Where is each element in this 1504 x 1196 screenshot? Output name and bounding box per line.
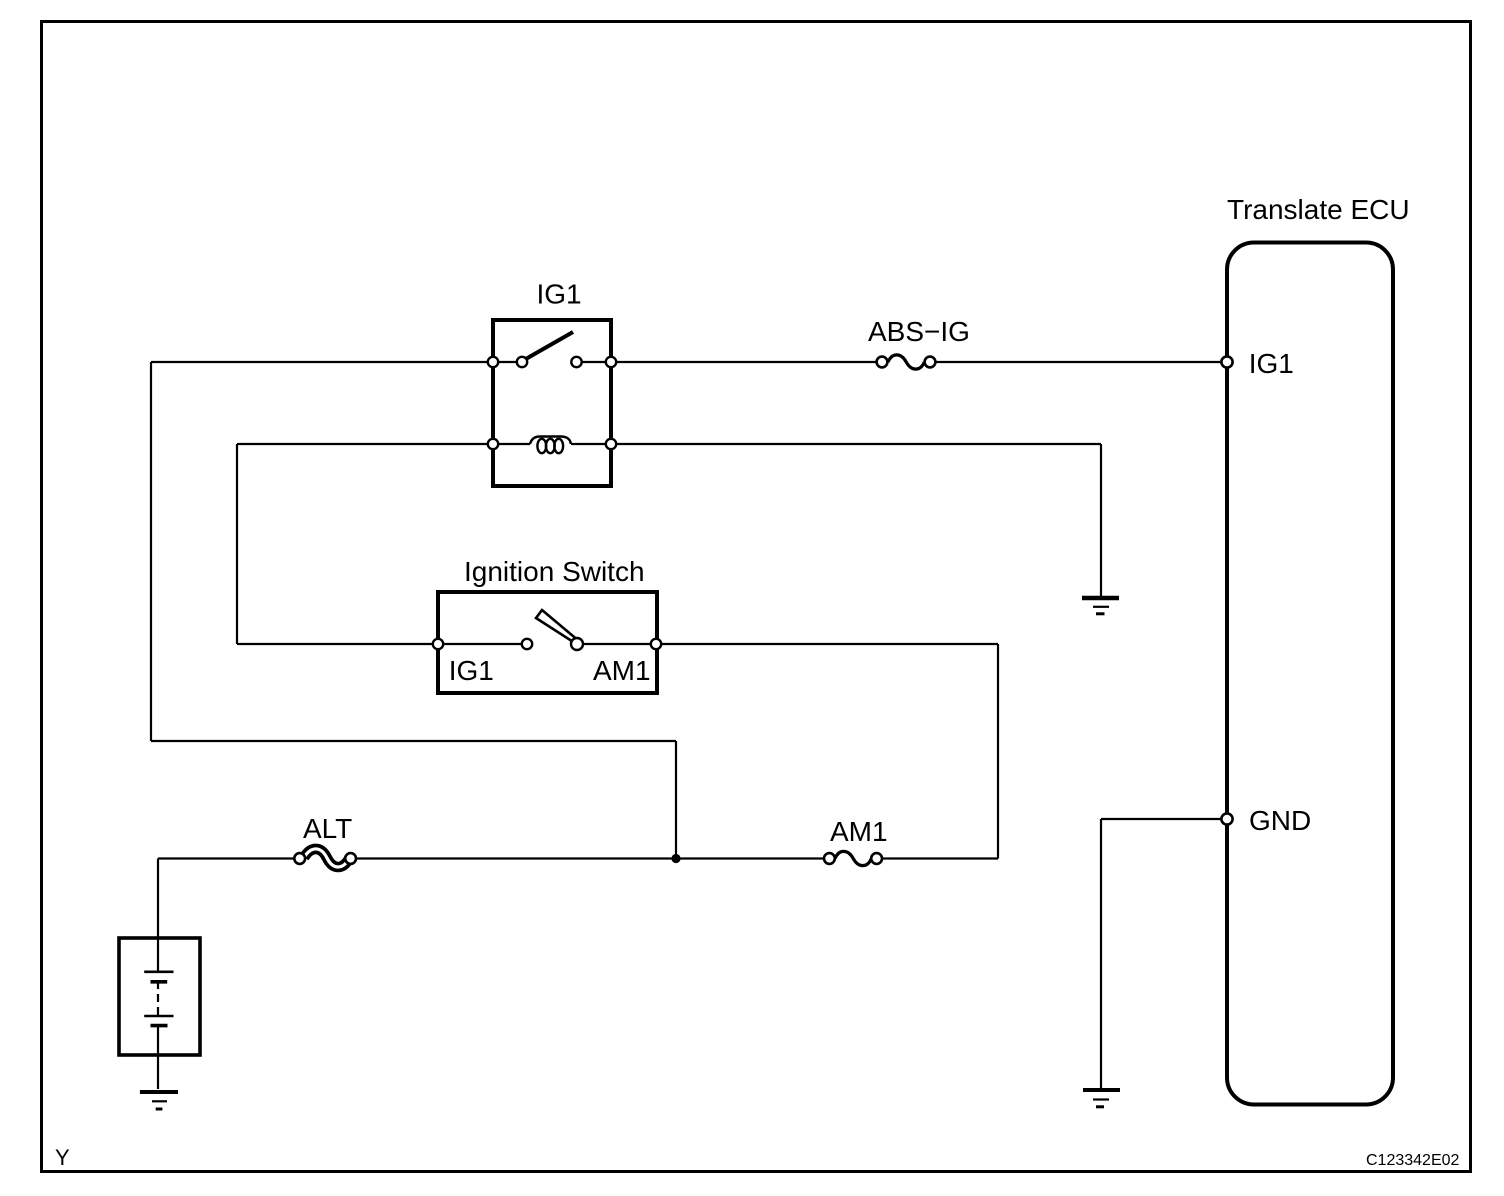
label IG1 terminal	[449, 655, 494, 686]
pin label GND	[1249, 805, 1311, 836]
pin GND terminal on ECU	[1221, 813, 1232, 824]
label IG1 relay	[537, 279, 582, 310]
relay IG1 box	[493, 320, 611, 486]
ignition switch lever	[536, 610, 578, 644]
wire lower horizontal run to junction	[151, 740, 676, 742]
svg-text:GND: GND	[1249, 805, 1311, 836]
wire right drop to bottom row	[997, 644, 999, 859]
wire bottom row battery to ALT	[158, 857, 300, 859]
label AM1 terminal	[593, 655, 651, 686]
ground below battery	[140, 1092, 178, 1109]
battery B1	[119, 938, 200, 1089]
wire relay switch output to ABS-IG fuse	[576, 361, 882, 363]
wire ALT to AM1 fuse	[350, 857, 830, 859]
junction node	[671, 854, 680, 863]
ignition switch S1 box	[438, 592, 657, 693]
pin IG1 terminal on ECU	[1221, 356, 1232, 367]
svg-text:ABS−IG: ABS−IG	[868, 316, 970, 347]
svg-text:Translate ECU: Translate ECU	[1227, 194, 1410, 225]
wire top row from left riser to relay	[151, 361, 522, 363]
wire relay coil row	[237, 443, 530, 445]
wire battery top lead	[157, 859, 159, 973]
label ALT	[303, 813, 352, 844]
wire ignition switch AM1 out	[577, 643, 998, 645]
label Y	[55, 1145, 70, 1170]
label ABS-IG	[868, 316, 970, 347]
wire coil loop left drop	[236, 444, 238, 644]
ECU U1 body	[1227, 243, 1393, 1105]
fuse AM1	[824, 851, 882, 865]
wire coil right to ground riser	[571, 443, 1101, 445]
ground mid (relay coil return)	[1082, 598, 1119, 614]
svg-text:Ignition Switch: Ignition Switch	[464, 556, 645, 587]
svg-text:C123342E02: C123342E02	[1366, 1152, 1460, 1169]
svg-text:Y: Y	[55, 1145, 70, 1170]
wire ground riser bottom	[1100, 819, 1102, 1089]
wire ABS-IG fuse to ECU pin IG1	[930, 361, 1227, 363]
relay pin terminals	[488, 357, 616, 449]
label AM1 fuse	[830, 816, 888, 847]
svg-text:ALT: ALT	[303, 813, 352, 844]
wire AM1 fuse to right drop	[876, 857, 998, 859]
wire ECU GND pin to ground riser	[1101, 818, 1227, 820]
wire ground riser mid	[1100, 444, 1102, 596]
wire into ignition switch IG1	[237, 643, 527, 645]
ground ECU GND	[1083, 1090, 1120, 1107]
ignition switch terminals	[433, 638, 661, 650]
label Ignition Switch	[464, 556, 645, 587]
svg-text:IG1: IG1	[449, 655, 494, 686]
relay switch blade	[524, 332, 573, 360]
wire junction drop	[675, 741, 677, 859]
svg-text:AM1: AM1	[593, 655, 651, 686]
fusible link ALT	[294, 849, 356, 867]
fuse ABS-IG	[877, 355, 936, 369]
svg-text:IG1: IG1	[537, 279, 582, 310]
svg-text:IG1: IG1	[1249, 348, 1294, 379]
label C123342E02	[1366, 1152, 1460, 1169]
svg-text:AM1: AM1	[830, 816, 888, 847]
label Translate ECU	[1227, 194, 1410, 225]
pin label IG1	[1249, 348, 1294, 379]
wire left riser	[150, 362, 152, 741]
relay coil L1	[530, 437, 571, 454]
